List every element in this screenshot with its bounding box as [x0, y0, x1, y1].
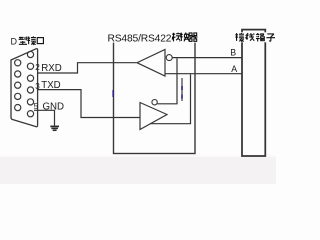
svg-text:RS485/RS422: RS485/RS422 — [108, 34, 172, 45]
driver triangle U1B — [140, 103, 167, 130]
blue artifact mark on box left edge — [112, 90, 114, 97]
svg-text:B: B — [230, 48, 236, 58]
CJK 端 — [256, 33, 265, 41]
svg-text:D: D — [11, 36, 18, 46]
converter box U1 — [114, 36, 196, 154]
driver inverting bubble — [152, 100, 157, 105]
wire GND pin5 — [34, 110, 55, 125]
wire TXD pin3 to driver input — [38, 90, 140, 118]
pin circles left column — [15, 60, 21, 66]
svg-text:RXD: RXD — [41, 63, 61, 74]
receiver triangle U1A — [137, 50, 165, 77]
label terminal block — [235, 32, 276, 42]
wire A receiver input to terminal — [165, 73, 242, 75]
pin circles right column — [27, 51, 33, 57]
CJK 接 — [27, 36, 36, 44]
svg-text:3: 3 — [35, 82, 40, 91]
connector J1 DB9 body — [11, 49, 38, 127]
ground symbol — [50, 126, 59, 130]
dangling mark line — [181, 78, 183, 101]
CJK 线 — [246, 33, 254, 41]
CJK 型 — [19, 37, 27, 45]
svg-text:GND: GND — [43, 101, 65, 112]
label D-type interface — [11, 36, 44, 46]
svg-text:2: 2 — [35, 63, 40, 72]
label RS485/RS422 converter — [107, 31, 198, 45]
CJK 转 — [172, 33, 181, 42]
blue artifact segments on dangling line — [181, 86, 183, 90]
svg-text:TXD: TXD — [41, 80, 60, 91]
svg-text:A: A — [231, 64, 237, 74]
wire RXD pin2 to receiver output — [38, 63, 137, 73]
wire B receiver bubble to terminal — [172, 57, 242, 59]
svg-text:5: 5 — [34, 102, 39, 111]
wire driver bubble to B — [157, 58, 177, 104]
CJK 口 — [37, 38, 43, 44]
CJK 接 — [235, 33, 244, 42]
CJK 子 — [266, 34, 275, 41]
CJK 换 — [180, 33, 189, 42]
wire driver output to A — [150, 74, 190, 123]
receiver inverting bubble — [166, 55, 172, 61]
CJK 器 — [189, 33, 198, 41]
terminal block TB1 — [242, 30, 265, 156]
